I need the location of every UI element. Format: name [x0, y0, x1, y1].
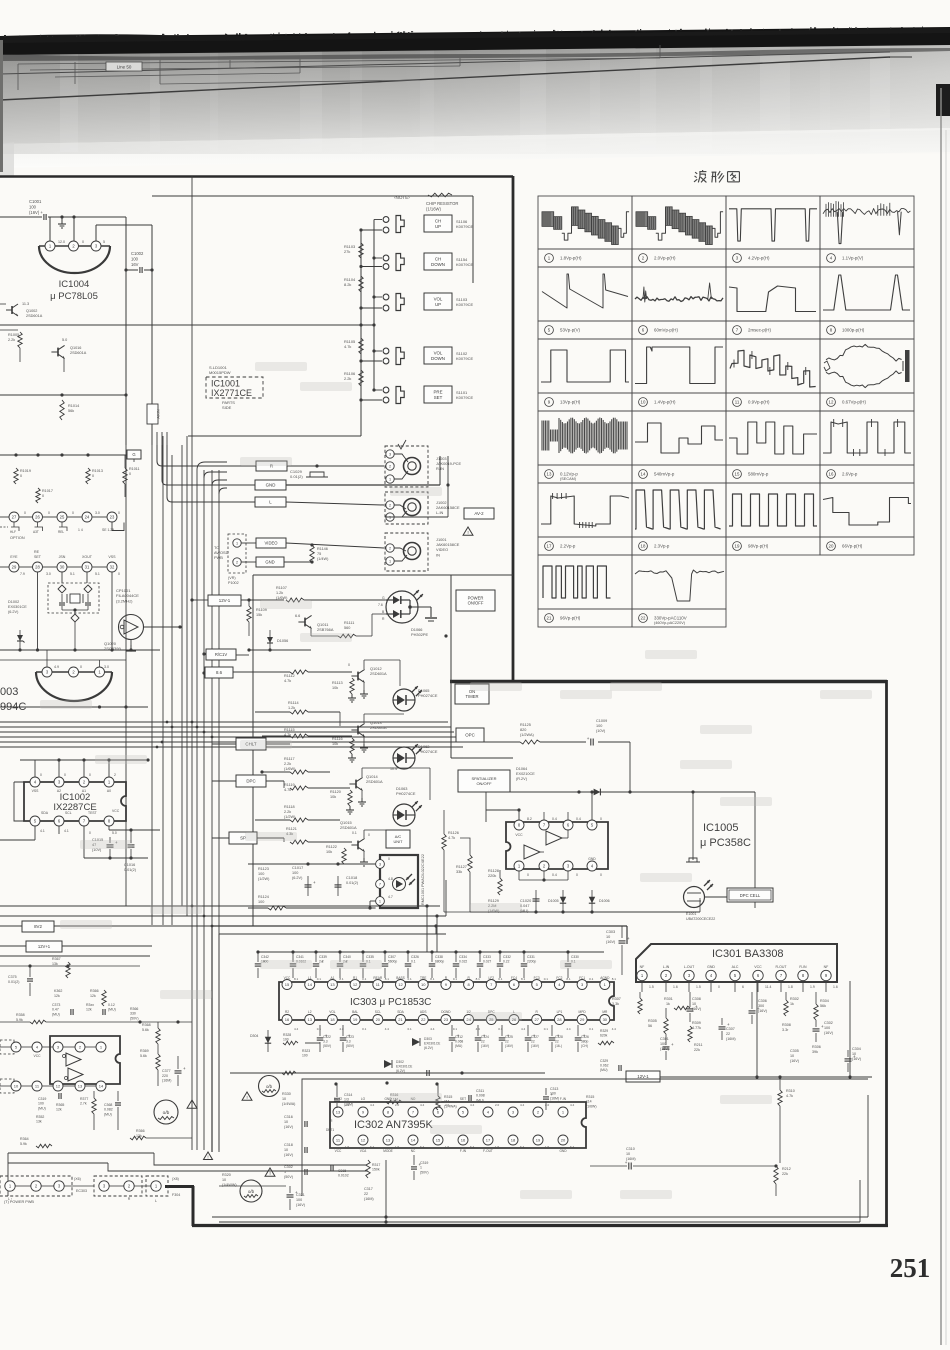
svg-text:C332: C332 [503, 955, 511, 959]
svg-text:CH: CH [435, 218, 441, 223]
svg-text:(50V): (50V) [130, 1016, 139, 1020]
svg-text:4.4: 4.4 [430, 1027, 435, 1031]
capacitor C326 [577, 1025, 579, 1036]
svg-text:VCC: VCC [754, 965, 762, 969]
svg-text:(50V): (50V) [284, 1175, 293, 1179]
wire y956 [0, 955, 150, 957]
wire driver bus [249, 649, 311, 651]
svg-text:C326: C326 [411, 955, 419, 959]
wire E1001 to DPC CELL [705, 896, 728, 898]
svg-text:12.0: 12.0 [58, 240, 65, 244]
IC1002 pin 1 [104, 777, 114, 787]
svg-text:1000p-p(H): 1000p-p(H) [842, 328, 865, 333]
transistor Q1014 [355, 780, 357, 789]
wire y946 [0, 945, 26, 947]
waveform cell 11 label [733, 398, 742, 407]
svg-text:10: 10 [222, 1178, 226, 1182]
svg-text:R1115: R1115 [284, 728, 295, 732]
wire x386 down [385, 1160, 387, 1222]
svg-text:IC1004: IC1004 [59, 279, 90, 290]
svg-text:DOWN: DOWN [431, 262, 445, 267]
svg-text:12: 12 [398, 982, 403, 987]
IC302 body [330, 1102, 586, 1148]
waveform cell 20 frame [820, 483, 914, 537]
svg-text:PWB: PWB [214, 555, 223, 560]
waveform cell 2 label [639, 254, 648, 263]
CP1001 resonator [119, 615, 144, 640]
crystal caps [59, 602, 65, 604]
waveform cell 7 frame [726, 267, 820, 321]
svg-text:10: 10 [282, 1097, 286, 1101]
svg-text:251: 251 [890, 1253, 931, 1283]
IC303 pin 30 MR [600, 1015, 610, 1025]
svg-text:0.062: 0.062 [600, 1064, 609, 1068]
resistor R304 [814, 1004, 818, 1020]
svg-text:15k: 15k [256, 613, 262, 617]
waveform cell 17 frame [538, 483, 632, 537]
svg-text:R367: R367 [52, 957, 61, 961]
transistor Q1015 [357, 841, 359, 850]
svg-text:25: 25 [60, 515, 65, 520]
svg-text:VCC: VCC [112, 809, 120, 813]
svg-text:EX0210CE: EX0210CE [516, 772, 535, 776]
wire [151, 395, 153, 404]
resistor R366c [102, 990, 106, 1006]
svg-text:2.3Vp-p: 2.3Vp-p [654, 544, 670, 549]
wire pin5 down [34, 826, 36, 840]
svg-text:+: + [183, 1066, 186, 1071]
svg-text:2.6Vp-p: 2.6Vp-p [842, 472, 858, 477]
resistor R1109 vertical [247, 606, 251, 622]
svg-text:R1017: R1017 [42, 489, 53, 493]
IC351 pin 12 [53, 1081, 63, 1091]
wire y792 top bus [486, 791, 755, 793]
svg-text:29: 29 [12, 565, 17, 570]
waveform cell 4 frame [820, 196, 914, 249]
svg-text:18: 18 [511, 1137, 516, 1142]
waveform table title 波形图 drawn as strokes [695, 172, 697, 174]
svg-text:0.1: 0.1 [408, 977, 413, 981]
svg-text:2200p: 2200p [527, 960, 536, 964]
svg-text:0.082: 0.082 [104, 1108, 113, 1112]
svg-text:C1009: C1009 [596, 719, 607, 723]
bus corners top right [197, 462, 227, 470]
svg-text:1M: 1M [444, 1100, 449, 1104]
svg-text:0.1: 0.1 [589, 1027, 594, 1031]
svg-text:HLF: HLF [10, 530, 16, 534]
resistor R367 [66, 962, 70, 978]
button ladder bus x374 [373, 220, 375, 391]
svg-text:1.9: 1.9 [810, 985, 815, 989]
waveform cell 19 trace [729, 494, 817, 526]
svg-text:DGND: DGND [441, 1010, 451, 1014]
svg-text:100: 100 [258, 900, 264, 904]
IC302 pin bottom 11 [333, 1135, 343, 1145]
svg-text:M0015PDW: M0015PDW [209, 370, 231, 375]
bus drops into audio section [426, 906, 428, 952]
svg-text:0.67Vp-p(H): 0.67Vp-p(H) [842, 400, 866, 405]
svg-text:C326: C326 [581, 1035, 589, 1039]
svg-text:K0079CE: K0079CE [456, 224, 473, 229]
waveform cell 12 frame [820, 339, 914, 393]
svg-text:L-IN: L-IN [436, 510, 444, 515]
zener D1064 [594, 789, 601, 796]
diode D302 [384, 1060, 392, 1068]
svg-text:R1123: R1123 [258, 867, 269, 871]
C1029 switch symbol [310, 472, 324, 477]
svg-text:8.1: 8.1 [430, 977, 435, 981]
OPC box [456, 728, 484, 742]
line50 box [106, 62, 142, 71]
svg-text:820: 820 [520, 728, 526, 732]
svg-text:R1019: R1019 [20, 469, 31, 473]
svg-text:R1113: R1113 [332, 681, 343, 685]
svg-text:(16V): (16V) [606, 940, 616, 944]
IC1003 pin 3 [42, 667, 52, 677]
svg-text:IC1001: IC1001 [211, 379, 240, 389]
svg-text:8.1: 8.1 [476, 977, 481, 981]
ground IC1005 [692, 792, 694, 860]
svg-text:C302: C302 [824, 1021, 833, 1025]
svg-text:C302: C302 [284, 1165, 293, 1169]
resistor R1122 [342, 848, 346, 864]
wire audio y1186 [219, 1185, 286, 1187]
svg-text:(MU): (MU) [600, 1068, 608, 1072]
photocoupler D1066 [386, 591, 418, 623]
svg-text:R1011: R1011 [129, 467, 140, 471]
resistor R1107 [286, 598, 304, 602]
wire Q1014 collector [361, 768, 363, 777]
ground Q1014 [361, 791, 363, 798]
svg-text:2SD601A: 2SD601A [340, 825, 357, 830]
svg-text:DET1: DET1 [326, 1128, 334, 1132]
svg-text:ADS: ADS [420, 1010, 427, 1014]
svg-text:R366: R366 [136, 1129, 145, 1133]
svg-text:R1005: R1005 [8, 333, 19, 337]
svg-text:SDA: SDA [397, 1010, 404, 1014]
svg-text:C373: C373 [52, 1003, 60, 1007]
wire [19, 348, 21, 362]
IC1005 pin 4 [587, 861, 597, 871]
svg-text:!: ! [207, 1154, 208, 1159]
AC UNIT box [386, 830, 410, 848]
svg-text:0.022: 0.022 [459, 960, 467, 964]
svg-text:(50V): (50V) [420, 1170, 429, 1174]
svg-text:2SB766A: 2SB766A [317, 627, 334, 632]
svg-text:1.2k: 1.2k [288, 706, 295, 710]
svg-text:8.1: 8.1 [294, 977, 299, 981]
svg-text:PH0274CE: PH0274CE [418, 749, 438, 754]
IC302 pin bottom 17 [483, 1135, 493, 1145]
diode D1056 [269, 630, 271, 650]
svg-text:L: L [155, 1199, 157, 1203]
svg-text:100: 100 [596, 724, 602, 728]
audio box bottom lines [212, 1216, 868, 1218]
waveform cell 16 label [827, 470, 836, 479]
IC303 pin 21 SDA [396, 1015, 406, 1025]
svg-text:1.6: 1.6 [673, 985, 678, 989]
svg-text:0: 0 [72, 511, 74, 515]
mcu pin row 2 [9, 562, 19, 572]
svg-text:μ PC78L05: μ PC78L05 [50, 291, 98, 302]
resistor R1105 [359, 338, 363, 354]
svg-text:R212: R212 [782, 1167, 791, 1171]
waveform cell 19 label [733, 542, 742, 551]
IC1005 pin 3 [563, 861, 573, 871]
IC302 pin bottom 20 [558, 1135, 568, 1145]
svg-text:R1119: R1119 [284, 783, 295, 787]
cap C368 [115, 1102, 121, 1104]
svg-text:(16M): (16M) [162, 1079, 171, 1083]
svg-text:R307: R307 [612, 997, 621, 1001]
svg-text:C368: C368 [104, 1103, 112, 1107]
bundle junction dots [191, 721, 194, 724]
vertical bus x172 [171, 455, 173, 925]
IC1002 left loop [14, 782, 30, 821]
cap C1016 [130, 840, 132, 843]
svg-text:EYE: EYE [10, 555, 18, 559]
svg-text:23: 23 [444, 1017, 449, 1022]
svg-text:R1121: R1121 [286, 827, 297, 831]
svg-text:1.5: 1.5 [545, 1145, 550, 1149]
speaker connector dashed group3 [146, 1176, 168, 1196]
cap C307 [719, 1026, 726, 1028]
svg-text:PH0274CE: PH0274CE [418, 693, 438, 698]
waveform cell 1 trace [542, 212, 554, 227]
J1002 dashed box [385, 492, 428, 524]
J1003 dashed box [385, 446, 428, 487]
svg-text:580p: 580p [581, 1040, 589, 1044]
wire [339, 712, 341, 726]
svg-text:C342: C342 [261, 955, 269, 959]
svg-text:(16M): (16M) [364, 1197, 374, 1201]
left bus bundle horizontal [0, 721, 448, 723]
svg-text:F-IN: F-IN [560, 1097, 567, 1101]
IC302 pin top 13 [333, 1107, 343, 1117]
svg-text:REL: REL [58, 530, 64, 534]
svg-text:4.4: 4.4 [294, 1027, 299, 1031]
svg-text:0: 0 [89, 773, 91, 777]
svg-text:003: 003 [0, 686, 18, 698]
IC351 wires [0, 1046, 11, 1048]
svg-text:GND: GND [266, 483, 276, 488]
12V-1 left box [26, 941, 62, 952]
svg-text:(50V): (50V) [346, 1044, 354, 1048]
svg-text:D1006: D1006 [599, 899, 610, 903]
svg-text:0: 0 [40, 773, 42, 777]
svg-text:7.9: 7.9 [20, 572, 25, 576]
capacitor C341 [291, 950, 294, 953]
svg-text:4.4: 4.4 [612, 1027, 617, 1031]
svg-text:0.068: 0.068 [455, 1040, 463, 1044]
svg-text:10k: 10k [330, 795, 336, 799]
svg-text:P1002: P1002 [228, 581, 239, 585]
IC1002 pin 5 [30, 816, 40, 826]
vertical bus x212 [211, 470, 213, 1150]
svg-text:R1114: R1114 [288, 701, 299, 705]
svg-text:2SD601A: 2SD601A [26, 314, 43, 318]
photocoupler D1065 [393, 689, 415, 711]
cap C308a [687, 1008, 694, 1010]
IC1003 semicircle [36, 671, 112, 673]
resistor R1146 [310, 545, 314, 563]
svg-text:16: 16 [829, 472, 834, 477]
svg-text:20: 20 [376, 1017, 381, 1022]
svg-text:VCA: VCA [360, 1149, 367, 1153]
svg-text:11.3: 11.3 [22, 302, 29, 306]
svg-text:R1126: R1126 [448, 831, 459, 835]
wire y890 bus [500, 889, 592, 891]
waveform cell 14 trace [635, 423, 723, 453]
svg-text:o/b: o/b [248, 1189, 255, 1194]
IC303 pin 26 L IN [509, 1015, 519, 1025]
wire stubs IC1003 [46, 650, 48, 667]
waveform cell 13 label [545, 470, 554, 479]
svg-text:6.4: 6.4 [570, 1145, 575, 1149]
P1002 dashed connector [228, 534, 246, 573]
svg-text:(16V): (16V) [481, 1044, 489, 1048]
wire Q1013 collector [363, 714, 365, 723]
svg-text:2.0Vp-p(H): 2.0Vp-p(H) [654, 256, 676, 261]
waveform cell 5 trace [542, 274, 628, 308]
waveform cell 4 label [827, 254, 836, 263]
svg-text:0.4: 0.4 [552, 817, 557, 821]
svg-text:33k: 33k [456, 870, 462, 874]
svg-text:+: + [419, 1162, 422, 1167]
resistor R1115 [290, 734, 308, 738]
bus bundle vertical drops [447, 722, 449, 760]
waveform cell 17 trace [541, 496, 629, 526]
svg-text:0: 0 [368, 833, 370, 837]
top band wire diagonal [0, 57, 890, 100]
cap C311 [468, 1095, 470, 1101]
svg-text:0: 0 [89, 831, 91, 835]
svg-text:EX0301CE: EX0301CE [8, 605, 27, 609]
svg-text:F-IN: F-IN [460, 1149, 467, 1153]
svg-text:2.2k: 2.2k [284, 810, 291, 814]
IC1002 pin 7 [79, 816, 89, 826]
speaker connector dashed group2 [94, 1176, 142, 1196]
resistor R1119 [290, 786, 308, 790]
svg-text:L2: L2 [308, 1010, 312, 1014]
IC1005 body [506, 822, 608, 869]
svg-text:EC303: EC303 [76, 1189, 87, 1193]
svg-text:27: 27 [534, 1017, 539, 1022]
svg-text:0.1: 0.1 [453, 1027, 458, 1031]
J1001 pin 2 [386, 544, 394, 552]
svg-text:10: 10 [790, 1054, 794, 1058]
svg-text:4.4: 4.4 [520, 1103, 525, 1107]
R328 label [283, 1041, 298, 1045]
IC1004 regulator semicircle [39, 245, 110, 247]
svg-text:0: 0 [348, 663, 350, 667]
ground Q1012 [363, 683, 365, 690]
svg-text:10: 10 [14, 1083, 19, 1088]
cap C377 [175, 1070, 182, 1072]
svg-text:2SD601A: 2SD601A [70, 351, 87, 355]
mcu pin row1 lower stubs [13, 523, 15, 528]
svg-text:27: 27 [12, 515, 17, 520]
resistor R369 [156, 1054, 160, 1070]
resistor R315 [436, 1096, 440, 1110]
speaker connector dashed group1 [0, 1176, 72, 1196]
waveform cell 10 label [639, 398, 648, 407]
R label box [157, 445, 256, 466]
svg-text:1.4Vp-p(H): 1.4Vp-p(H) [654, 400, 676, 405]
J1002 pin 1 [386, 513, 394, 521]
svg-text:8.1: 8.1 [339, 977, 344, 981]
vertical bus x157 [156, 432, 158, 461]
IC1002 pin 2 [79, 777, 89, 787]
IC351 pin 3 [53, 1042, 63, 1052]
svg-text:3.0: 3.0 [95, 511, 100, 515]
svg-text:0.1: 0.1 [544, 977, 549, 981]
crystal symbol [70, 594, 80, 603]
IC1005 pin 5 [587, 820, 597, 830]
svg-text:19: 19 [536, 1137, 541, 1142]
svg-text:(16V): (16V) [531, 1044, 539, 1048]
svg-text:12V-1: 12V-1 [219, 598, 231, 603]
svg-text:(MU): (MU) [52, 1012, 60, 1016]
IC1005 right wires [608, 845, 700, 847]
svg-text:R1112: R1112 [284, 674, 295, 678]
IC301 bottom bus [622, 991, 850, 993]
svg-text:13: 13 [78, 1083, 83, 1088]
svg-text:100: 100 [38, 1102, 44, 1106]
svg-text:14: 14 [307, 982, 312, 987]
svg-text:(T) POWER PWB: (T) POWER PWB [4, 1200, 34, 1204]
svg-text:0.9Vp-p(H): 0.9Vp-p(H) [748, 400, 770, 405]
svg-text:R1107: R1107 [276, 586, 287, 590]
svg-text:R-IN: R-IN [436, 466, 444, 471]
IC302 pin top 4 [483, 1107, 493, 1117]
wire y742 [475, 741, 520, 743]
svg-text:11.4: 11.4 [765, 985, 771, 989]
svg-text:R315: R315 [586, 1095, 594, 1099]
svg-text:10k: 10k [326, 850, 332, 854]
svg-text:1.8Vp-p(H): 1.8Vp-p(H) [560, 256, 582, 261]
svg-text:5: 5 [103, 240, 105, 244]
waveform cell 21 trace [543, 566, 611, 598]
svg-text:(X8): (X8) [172, 1177, 179, 1181]
wire [310, 629, 312, 636]
capacitor C307 [383, 950, 386, 953]
wire top ic351 [0, 1021, 30, 1023]
8V2 box [22, 921, 54, 932]
wire L to J1002 [286, 502, 384, 505]
cap C313 [543, 1096, 549, 1098]
svg-text:(6.2V): (6.2V) [292, 876, 303, 880]
IC303 pin 19 BAL [350, 1015, 360, 1025]
IC302 pin bottom 12 [358, 1135, 368, 1145]
svg-text:R/C1V: R/C1V [215, 652, 228, 657]
svg-text:C1018: C1018 [346, 876, 357, 880]
resistor R1017 [36, 488, 40, 503]
svg-text:4.7k: 4.7k [344, 344, 351, 349]
svg-text:3.3: 3.3 [323, 1040, 328, 1044]
waveform cell 2 trace [636, 212, 648, 227]
E1001 dpc cell [684, 887, 705, 908]
cap C1009 [590, 739, 592, 746]
capacitor C1002 [139, 267, 141, 273]
svg-text:0.01(2): 0.01(2) [8, 980, 19, 984]
svg-text:CHIP RESISTOR: CHIP RESISTOR [426, 201, 458, 206]
IC1004 pin 3 [91, 241, 101, 251]
svg-text:1.5: 1.5 [395, 1145, 400, 1149]
svg-text:SDA: SDA [41, 811, 49, 815]
svg-text:R368: R368 [142, 1023, 151, 1027]
resistor R1112 [290, 670, 308, 674]
